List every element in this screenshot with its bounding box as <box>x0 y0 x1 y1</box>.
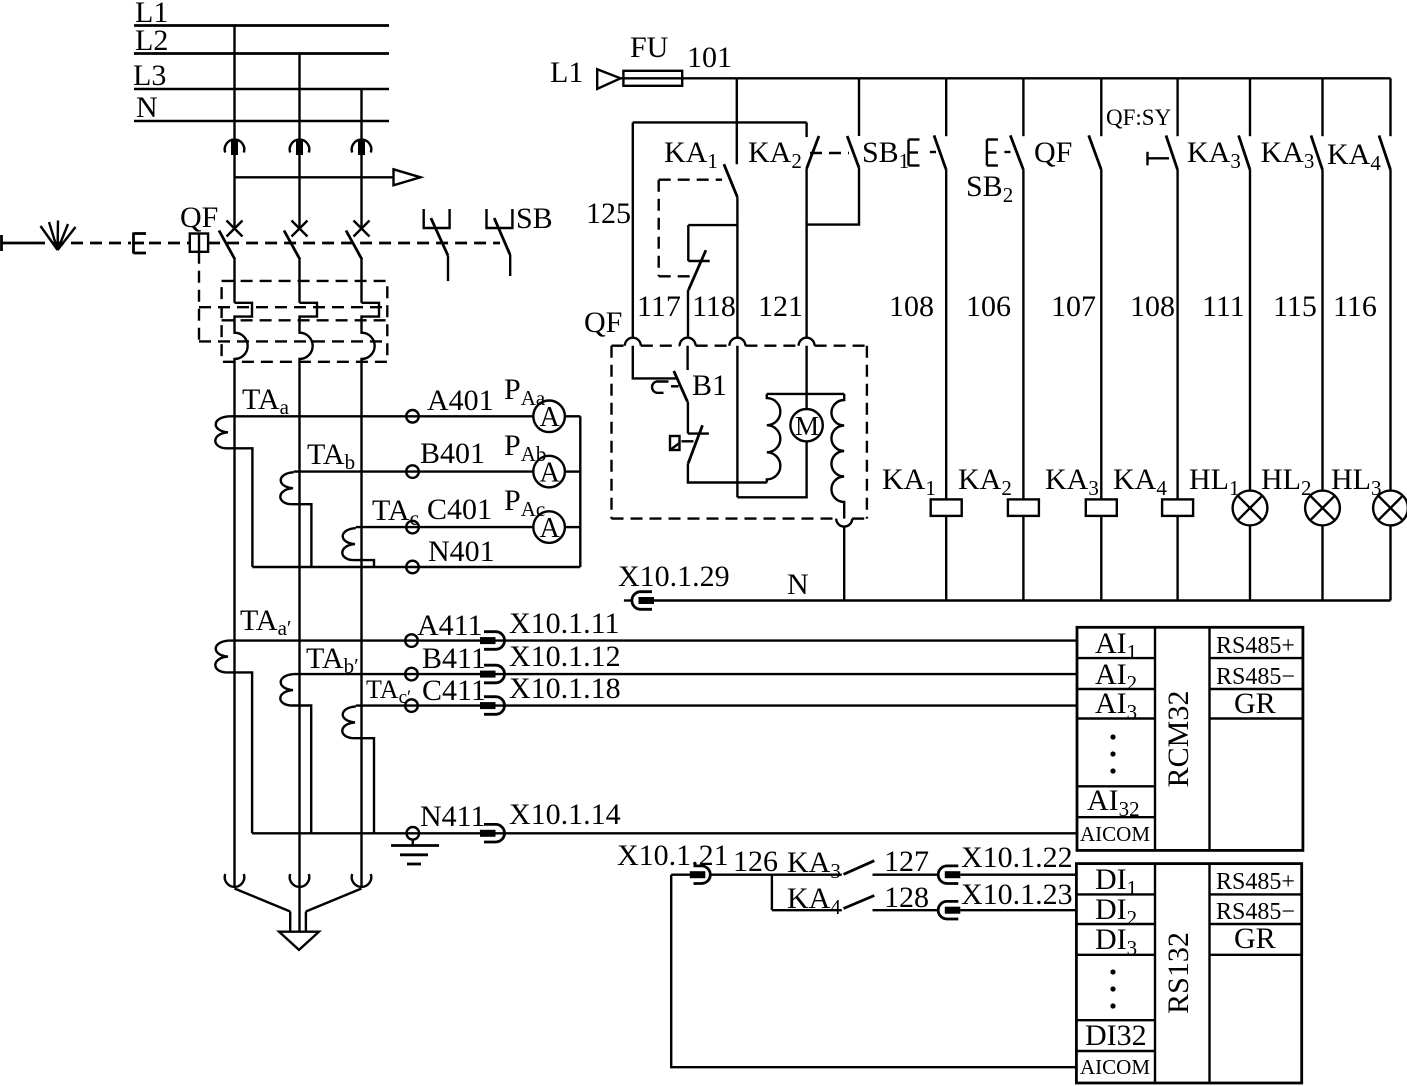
svg-text:B1: B1 <box>692 369 727 402</box>
wire 126 <box>710 874 842 876</box>
svg-text:128: 128 <box>884 881 929 914</box>
contact NC linked <box>688 250 710 338</box>
rail 101 <box>623 77 1390 79</box>
wire C401 <box>356 526 581 528</box>
wire A401 <box>229 415 581 417</box>
svg-text:108: 108 <box>889 290 934 323</box>
wire 118 inside <box>686 346 688 370</box>
connector X10.1.11 <box>480 632 505 650</box>
svg-text:121: 121 <box>758 290 803 323</box>
bus L1 <box>134 0 389 29</box>
wire phase B drop <box>298 54 300 230</box>
module RCM32 box <box>1077 627 1303 850</box>
interlock dashed line <box>149 242 190 245</box>
wire to voltage tap arrow <box>235 169 421 185</box>
CT TAc winding <box>342 528 355 560</box>
KA1 linkage dashed <box>659 180 722 277</box>
SB switch contact 1 <box>424 209 450 281</box>
svg-text:126: 126 <box>733 845 778 878</box>
QF accessory dashed box <box>612 346 867 519</box>
wire rail drop KA1 <box>736 78 738 164</box>
contact SB2 <box>1010 78 1023 499</box>
wire 117 inside <box>633 346 676 379</box>
breaker pole C <box>346 221 370 303</box>
terminal B401 <box>406 465 419 478</box>
source arrow <box>597 69 620 89</box>
svg-text:101: 101 <box>687 41 732 74</box>
lamp HL3 <box>1331 463 1407 601</box>
coil KA4 <box>1113 463 1193 601</box>
wire M bottom <box>737 441 806 497</box>
terminal A411 <box>405 634 418 647</box>
grommet 118 <box>680 338 696 346</box>
svg-text:GR: GR <box>1234 687 1276 720</box>
plug-in contact phase C <box>352 140 372 155</box>
svg-text:N: N <box>136 91 158 124</box>
coil KA1 <box>882 463 962 601</box>
contact B1 <box>652 371 687 402</box>
RCM32 right cells <box>1210 658 1303 718</box>
phase line A continue <box>233 416 235 887</box>
breaker pole A <box>219 221 243 303</box>
svg-text:RS132: RS132 <box>1162 932 1195 1014</box>
wire TAc2 bottom <box>353 738 374 833</box>
module RS132 box <box>1076 864 1301 1083</box>
svg-text:SB: SB <box>516 202 553 235</box>
wire A411 <box>229 639 1077 641</box>
svg-text:C401: C401 <box>427 493 492 526</box>
contact SB1 twin <box>807 78 859 224</box>
contact QF:SY <box>1148 78 1178 499</box>
bus L2 <box>134 24 389 57</box>
svg-text:N411: N411 <box>420 800 486 833</box>
terminal C401 <box>406 521 419 534</box>
contact KA3 b <box>1311 78 1323 490</box>
bus L3 <box>133 59 389 92</box>
grommet 121 <box>729 338 745 346</box>
trip unit pole C <box>362 303 380 528</box>
svg-text:107: 107 <box>1051 290 1096 323</box>
svg-text:118: 118 <box>692 290 736 323</box>
svg-text:AICOM: AICOM <box>1080 1055 1150 1079</box>
svg-text:111: 111 <box>1202 290 1245 323</box>
terminal A401 <box>406 410 419 423</box>
RS132 DI cells <box>1076 894 1155 1051</box>
wire 121 inside <box>736 346 738 498</box>
svg-text:N401: N401 <box>428 535 495 568</box>
svg-text:X10.1.29: X10.1.29 <box>618 560 730 593</box>
RS132 right cells <box>1210 894 1302 954</box>
wire 118 branch <box>688 225 737 261</box>
wire 117 drop <box>632 122 634 338</box>
motor M <box>790 409 822 441</box>
fuse FU <box>621 31 683 86</box>
svg-text:X10.1.14: X10.1.14 <box>509 798 621 831</box>
trip unit dashed box <box>222 281 388 362</box>
coil top bar <box>767 393 844 395</box>
connector X10.1.29 <box>624 592 654 610</box>
CT TAc2 winding <box>342 706 355 738</box>
svg-text:L2: L2 <box>135 24 168 57</box>
plug-in contact phase A <box>225 140 245 155</box>
button SB2 actuator E <box>987 140 1011 166</box>
connector X10.1.21 <box>671 866 710 884</box>
wire N401 <box>252 566 580 568</box>
ammeter bus <box>579 416 581 567</box>
wire M branch <box>805 346 807 409</box>
svg-text:A411: A411 <box>417 609 483 642</box>
bus 125 <box>633 121 807 123</box>
svg-text:M: M <box>795 411 819 441</box>
cable plug B <box>290 874 310 887</box>
svg-text:117: 117 <box>637 290 681 323</box>
svg-text:X10.1.11: X10.1.11 <box>509 607 620 640</box>
RCM32 AI cells <box>1077 658 1155 817</box>
contact KA3 a <box>1239 78 1250 490</box>
manual trip burst symbol <box>41 221 76 251</box>
actuator E symbol <box>134 233 147 254</box>
svg-text:C411: C411 <box>422 674 486 707</box>
contact KA4 <box>1379 78 1391 490</box>
CT TAb winding <box>280 472 293 504</box>
svg-text:QF: QF <box>1034 136 1072 169</box>
grommet M <box>799 338 815 346</box>
QF operating mechanism box <box>190 234 208 252</box>
grommet 117 <box>625 338 641 346</box>
contact QF aux <box>1089 78 1102 499</box>
lamp HL2 <box>1261 463 1340 601</box>
wire N rail <box>654 599 1391 601</box>
connector X10.1.12 <box>480 665 505 683</box>
svg-text:QF: QF <box>584 306 622 339</box>
trip bar dashed links <box>199 307 387 341</box>
ammeter PAa <box>533 401 565 434</box>
phase line B continue <box>298 472 300 887</box>
contact SB1 close <box>934 78 946 499</box>
terminal B411 <box>405 668 418 681</box>
CT TAa winding <box>215 416 228 448</box>
QF mechanism dashed link down <box>198 252 200 342</box>
cable plug A <box>225 874 245 887</box>
terminal N411 <box>407 827 420 840</box>
svg-text:RS485+: RS485+ <box>1216 633 1295 659</box>
contact KA4 di <box>844 896 939 911</box>
trip unit pole B <box>300 303 318 472</box>
contact KA1 <box>664 136 737 197</box>
svg-text:B411: B411 <box>422 642 486 675</box>
svg-text:X10.1.12: X10.1.12 <box>509 640 621 673</box>
svg-text:116: 116 <box>1333 290 1377 323</box>
connector X10.1.14 <box>480 824 505 842</box>
cable plug C <box>352 874 372 887</box>
wire TAa2 bottom <box>226 672 253 833</box>
plug-in contact phase B <box>290 140 310 155</box>
wire to closing coil <box>688 463 767 482</box>
wire N411 <box>252 832 1077 834</box>
wire B411 <box>294 673 1077 675</box>
interlock dashed line right part <box>208 242 500 245</box>
interlock dashed line <box>33 242 131 245</box>
svg-text:X10.1.22: X10.1.22 <box>961 841 1073 874</box>
svg-text:127: 127 <box>884 845 929 878</box>
svg-text:QF:SY: QF:SY <box>1106 105 1172 130</box>
terminal N401 <box>406 561 419 574</box>
svg-text:L1: L1 <box>550 56 583 89</box>
svg-text:X10.1.18: X10.1.18 <box>509 672 621 705</box>
svg-text:N: N <box>787 568 809 601</box>
wire phase C drop <box>360 89 362 230</box>
wire TAa bottom <box>226 448 253 567</box>
svg-text:115: 115 <box>1273 290 1317 323</box>
coil KA2 <box>958 463 1039 601</box>
svg-text:125: 125 <box>586 197 631 230</box>
connector X10.1.23 <box>938 901 1076 919</box>
bus N <box>134 91 389 124</box>
contact KA2 <box>748 122 819 338</box>
breaker pole B <box>284 221 308 303</box>
wire 121 <box>736 197 738 338</box>
wire C411 <box>356 704 1077 706</box>
wire TAc bottom <box>353 560 374 567</box>
ground symbol <box>391 840 439 864</box>
svg-text:RS485+: RS485+ <box>1216 869 1295 895</box>
svg-text:FU: FU <box>630 31 669 64</box>
wire phase A drop <box>233 26 235 230</box>
svg-text:DI32: DI32 <box>1085 1019 1147 1052</box>
svg-text:X10.1.23: X10.1.23 <box>961 878 1073 911</box>
svg-text:AICOM: AICOM <box>1080 822 1150 846</box>
CT TAb2 winding <box>280 674 293 705</box>
linkage KA2-SB1 dashed <box>810 152 849 154</box>
wire KA4 branch <box>772 875 842 911</box>
svg-text:108: 108 <box>1130 290 1175 323</box>
wire coil exit to N <box>843 527 845 601</box>
svg-text:A401: A401 <box>427 384 494 417</box>
terminal C411 <box>405 699 418 712</box>
CT TAa2 winding <box>215 641 228 673</box>
connector X10.1.22 <box>938 866 1076 884</box>
ammeter PAb <box>533 456 565 489</box>
connector X10.1.18 <box>480 697 504 715</box>
svg-text:106: 106 <box>966 290 1011 323</box>
lamp HL1 <box>1189 463 1267 601</box>
contact a NC <box>670 402 709 464</box>
phase line C continue <box>360 528 362 887</box>
wire TAb bottom <box>291 504 312 567</box>
svg-text:RCM32: RCM32 <box>1162 691 1195 788</box>
grommet coil exit <box>836 519 852 527</box>
contact KA3 di <box>844 861 939 875</box>
coil KA3 <box>1045 463 1117 601</box>
trip unit pole A <box>235 303 253 417</box>
svg-text:GR: GR <box>1234 922 1276 955</box>
svg-text:X10.1.21: X10.1.21 <box>617 839 729 872</box>
ammeter PAc <box>533 511 565 544</box>
wire TAb2 bottom <box>291 706 312 834</box>
interlock dashed line left end <box>2 235 34 251</box>
wire AICOM loop <box>671 875 1076 1067</box>
AI dots <box>1110 734 1115 773</box>
wire B401 <box>294 470 581 472</box>
svg-text:QF: QF <box>180 201 218 234</box>
closing coil winding <box>767 394 781 483</box>
cable merge arrow <box>235 887 362 950</box>
svg-text:L3: L3 <box>133 59 166 92</box>
second coil winding <box>831 394 844 519</box>
svg-text:B401: B401 <box>420 437 485 470</box>
button SB1 actuator E <box>909 140 937 166</box>
SB switch contact 2 <box>487 209 513 276</box>
DI dots <box>1110 969 1115 1008</box>
